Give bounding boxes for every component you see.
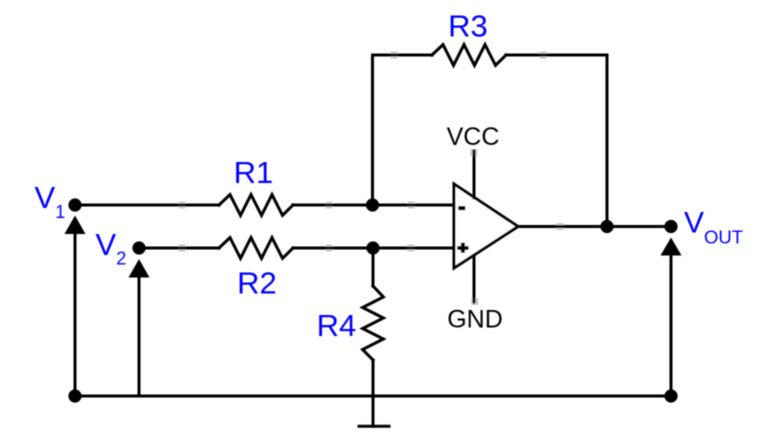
wire R1 to op-amp bbox=[293, 204, 454, 207]
grid marker on output wire bbox=[557, 223, 564, 230]
node output feedback junction bbox=[600, 220, 613, 233]
wire R4 to ground bbox=[372, 360, 375, 426]
grid marker on R3 wire right bbox=[540, 52, 547, 59]
wire V1 to op-amp inverting input bbox=[75, 204, 219, 207]
arrow Vout shaft bbox=[670, 252, 673, 396]
op-amp U1 bbox=[454, 184, 518, 268]
grid marker on R1 wire left bbox=[179, 202, 186, 209]
grid marker on R3 wire left bbox=[391, 52, 398, 59]
wire bottom rail bbox=[75, 395, 671, 398]
wire feedback top right bbox=[506, 54, 607, 57]
grid marker on GND pin bbox=[471, 298, 478, 305]
op-amp plus sign bbox=[457, 243, 468, 253]
wire V2 to op-amp noninverting input bbox=[139, 247, 219, 250]
wire op-amp output to Vout bbox=[518, 225, 671, 228]
arrowhead V2 bbox=[129, 259, 150, 278]
arrowhead Vout bbox=[661, 238, 682, 256]
resistor R2 bbox=[219, 238, 293, 259]
resistor R1 bbox=[219, 195, 293, 216]
wire feedback right vertical bbox=[606, 55, 609, 227]
node Vout bbox=[664, 220, 677, 233]
ground symbol bbox=[359, 425, 389, 428]
wire R2 node to R4 bbox=[372, 248, 375, 286]
resistor R3 bbox=[432, 45, 506, 66]
node R2 R4 junction bbox=[366, 241, 379, 254]
grid marker on R1 wire mid bbox=[326, 202, 333, 209]
node V1 input bbox=[68, 198, 81, 211]
svg-text:R1: R1 bbox=[234, 155, 274, 190]
svg-text:VCC: VCC bbox=[447, 123, 500, 151]
svg-text:R2: R2 bbox=[237, 266, 277, 301]
arrowhead V1 bbox=[65, 216, 86, 235]
grid marker on R2 wire mid bbox=[326, 245, 333, 252]
svg-text:R3: R3 bbox=[448, 9, 488, 44]
svg-text:R4: R4 bbox=[317, 308, 357, 343]
svg-text:VOUT: VOUT bbox=[684, 207, 743, 248]
svg-text:V2: V2 bbox=[96, 227, 127, 269]
op-amp minus sign bbox=[458, 206, 465, 210]
wire feedback top left bbox=[373, 54, 433, 57]
node V2 input bbox=[132, 241, 145, 254]
grid marker on R2 wire right bbox=[408, 245, 415, 252]
node rail left bbox=[68, 389, 81, 402]
node rail right bbox=[664, 389, 677, 402]
svg-text:GND: GND bbox=[447, 306, 503, 334]
op-amp GND pin bbox=[473, 256, 476, 302]
grid marker on VCC pin bbox=[470, 149, 477, 156]
resistor R4 bbox=[363, 286, 384, 360]
grid marker on R2 wire left bbox=[179, 245, 186, 252]
wire R2 to op-amp bbox=[293, 247, 454, 250]
op-amp VCC pin bbox=[473, 151, 476, 198]
arrow V1 shaft bbox=[74, 231, 77, 396]
node R1 feedback junction bbox=[366, 198, 379, 211]
grid marker on R1 wire right bbox=[408, 202, 415, 209]
svg-text:V1: V1 bbox=[35, 180, 66, 222]
wire feedback left vertical bbox=[371, 55, 374, 205]
arrow V2 shaft bbox=[138, 274, 141, 396]
